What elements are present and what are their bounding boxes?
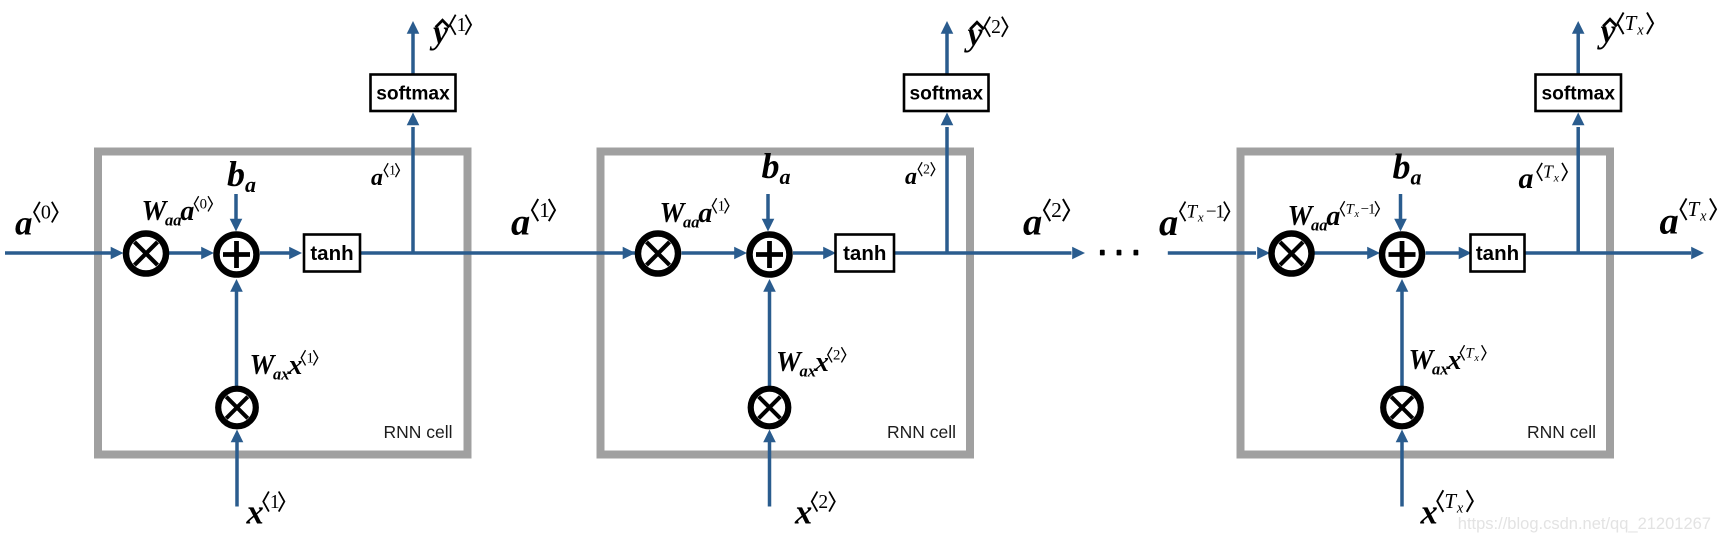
label W_aa a<0> cell1 — [142, 196, 213, 230]
svg-text:ax: ax — [273, 365, 290, 384]
wire cell1 plus to tanh — [260, 247, 302, 260]
svg-text:1: 1 — [1368, 202, 1375, 218]
svg-text:2: 2 — [1051, 198, 1062, 222]
arrow cell3 softmax output up — [1572, 21, 1585, 74]
svg-text:a: a — [15, 204, 33, 243]
svg-text:a: a — [511, 202, 530, 244]
svg-text:x: x — [1473, 353, 1479, 364]
svg-text:aa: aa — [165, 211, 182, 230]
svg-text:1: 1 — [457, 15, 467, 36]
svg-text:tanh: tanh — [1476, 242, 1519, 265]
svg-text:x: x — [246, 494, 264, 532]
arrowhead into cell3 multiply — [1257, 247, 1270, 260]
RNN cell 3 box — [1241, 152, 1611, 455]
svg-text:2: 2 — [833, 348, 840, 364]
svg-text:b: b — [1393, 147, 1411, 187]
multiply node cell3 (W_ax x) — [1383, 389, 1421, 427]
label a<2> small inside cell2 — [905, 162, 935, 191]
wire cell2 tanh output toward dots — [894, 251, 1072, 255]
label W_aa a<1> cell2 — [660, 198, 729, 232]
softmax box cell1 — [371, 75, 456, 112]
arrow cell2 Wax x into plus node — [763, 279, 776, 386]
wire cell1 tanh output to cell2 — [360, 251, 636, 255]
label x<1> — [246, 492, 285, 532]
svg-text:T: T — [1186, 201, 1198, 222]
label W_ax x<1> cell1 — [250, 350, 318, 384]
multiply node cell3 (W_aa a) — [1272, 234, 1312, 274]
svg-text:a: a — [1159, 202, 1178, 244]
svg-text:x: x — [794, 494, 812, 532]
wire cell2 plus to tanh — [793, 247, 836, 260]
svg-text:1: 1 — [307, 351, 314, 367]
svg-text:a: a — [1519, 162, 1534, 195]
svg-text:a: a — [905, 164, 917, 190]
wire cell1 multiply to plus — [167, 247, 215, 260]
wire cell2 multiply to plus — [682, 247, 748, 260]
svg-text:2: 2 — [923, 162, 930, 177]
svg-text:1: 1 — [539, 198, 550, 222]
RNN cell 1 box — [98, 152, 468, 455]
svg-text:x: x — [1456, 500, 1464, 516]
svg-text:a: a — [1023, 202, 1042, 244]
svg-text:T: T — [1688, 197, 1701, 221]
wire cell3 activation up from junction — [1576, 127, 1580, 254]
svg-text:x: x — [1354, 209, 1360, 220]
svg-text:0: 0 — [41, 202, 51, 224]
svg-text:https://blog.csdn.net/qq_21201: https://blog.csdn.net/qq_21201267 — [1458, 515, 1711, 533]
arrow cell1 softmax output up — [407, 21, 420, 74]
svg-text:a: a — [1326, 201, 1340, 232]
svg-text:tanh: tanh — [310, 242, 353, 265]
plus node cell1 — [217, 235, 257, 275]
svg-text:a: a — [371, 165, 383, 191]
label a<2> after cell2 — [1023, 198, 1069, 244]
svg-text:x: x — [1446, 345, 1461, 376]
svg-text:softmax: softmax — [1541, 83, 1615, 104]
multiply node cell2 (W_aa a) — [638, 234, 678, 274]
wire dots to cell3 — [1168, 251, 1256, 255]
arrowhead into cell1 softmax — [407, 113, 420, 126]
tanh box cell3 — [1471, 235, 1525, 272]
svg-text:a: a — [780, 164, 791, 189]
arrow x input into cell3 bottom multiply — [1396, 430, 1409, 507]
ellipsis dots between cell2 and cell3 — [1100, 250, 1138, 256]
svg-text:T: T — [1543, 162, 1554, 182]
svg-text:aa: aa — [683, 213, 700, 232]
svg-text:2: 2 — [991, 17, 1001, 38]
svg-text:ax: ax — [800, 362, 817, 381]
label y-hat<Tx> — [1597, 11, 1654, 51]
label y-hat<2> — [964, 17, 1008, 54]
wire cell3 tanh to output — [1525, 251, 1692, 255]
svg-text:ax: ax — [1432, 360, 1449, 379]
label a<Tx-1> before cell3 — [1159, 201, 1229, 244]
svg-text:aa: aa — [1311, 216, 1328, 235]
multiply node cell1 (W_aa a) — [126, 234, 166, 274]
svg-text:softmax: softmax — [909, 83, 983, 104]
svg-text:1: 1 — [270, 492, 280, 513]
wire cell1 activation up from junction — [411, 127, 415, 254]
arrowhead into cell3 softmax — [1572, 113, 1585, 126]
svg-text:a: a — [180, 196, 194, 227]
arrow b_a into cell1 plus node — [230, 194, 243, 232]
wire a0 input arrow into cell1 — [5, 247, 124, 260]
RNN cell 2 box — [601, 152, 971, 455]
svg-text:x: x — [1636, 23, 1644, 39]
svg-text:x: x — [287, 350, 302, 381]
tanh box cell1 — [304, 235, 360, 272]
label W_aa a<Tx-1> cell3 — [1288, 201, 1380, 235]
svg-text:a: a — [1660, 201, 1679, 243]
arrow b_a into cell2 plus node — [762, 194, 775, 232]
svg-text:softmax: softmax — [376, 83, 450, 104]
softmax box cell3 — [1536, 75, 1622, 112]
svg-text:a: a — [245, 172, 256, 197]
label x<2> — [794, 492, 835, 532]
svg-text:a: a — [698, 198, 712, 229]
label b_a cell3 — [1393, 147, 1422, 190]
svg-text:1: 1 — [718, 199, 725, 215]
svg-text:b: b — [762, 146, 780, 186]
label W_ax x<2> cell2 — [776, 347, 846, 381]
arrowhead before dots — [1072, 247, 1085, 260]
svg-text:x: x — [1699, 209, 1707, 225]
svg-text:T: T — [1625, 11, 1638, 35]
label W_ax x<Tx> cell3 — [1409, 345, 1486, 379]
svg-text:b: b — [227, 154, 245, 194]
svg-text:1: 1 — [1215, 201, 1225, 222]
label a<1> small inside cell1 — [371, 163, 399, 192]
wire cell2 activation up from junction — [945, 127, 949, 254]
arrowhead into cell2 softmax — [941, 113, 954, 126]
arrowhead a Tx output — [1691, 247, 1704, 260]
arrow cell1 Wax x into plus node — [230, 279, 243, 386]
arrow cell2 softmax output up — [941, 21, 954, 74]
tanh box cell2 — [836, 235, 895, 272]
label b_a cell2 — [762, 146, 791, 189]
wire cell3 plus to tanh — [1426, 247, 1472, 260]
svg-text:tanh: tanh — [843, 242, 886, 265]
svg-text:0: 0 — [200, 197, 207, 213]
label a<1> between cells — [511, 198, 555, 244]
svg-text:a: a — [1411, 165, 1422, 190]
label a<Tx> small inside cell3 — [1519, 162, 1568, 196]
softmax box cell2 — [904, 75, 989, 112]
arrow cell3 Wax x into plus node — [1396, 279, 1409, 386]
arrow x input into cell2 bottom multiply — [763, 430, 776, 507]
label b_a cell1 — [227, 154, 256, 197]
label x<Tx> — [1420, 489, 1473, 532]
svg-text:x: x — [1420, 494, 1438, 532]
svg-text:x: x — [1553, 170, 1560, 184]
arrowhead into cell2 multiply — [623, 247, 636, 260]
svg-text:x: x — [814, 347, 829, 378]
svg-text:x: x — [1197, 210, 1204, 225]
arrow b_a into cell3 plus node — [1394, 194, 1407, 232]
wire cell3 multiply to plus — [1315, 247, 1381, 260]
svg-text:RNN cell: RNN cell — [383, 422, 452, 442]
arrow x input into cell1 bottom multiply — [231, 430, 244, 507]
svg-text:T: T — [1444, 489, 1457, 513]
label a<Tx> output — [1660, 197, 1717, 243]
svg-text:RNN cell: RNN cell — [887, 422, 956, 442]
label y-hat<1> — [429, 15, 471, 52]
plus node cell2 — [750, 235, 790, 275]
label a<0> input — [15, 202, 58, 243]
multiply node cell1 (W_ax x) — [218, 389, 256, 427]
svg-text:1: 1 — [389, 163, 396, 178]
multiply node cell2 (W_ax x) — [751, 389, 789, 427]
svg-text:RNN cell: RNN cell — [1527, 422, 1596, 442]
plus node cell3 — [1382, 235, 1422, 275]
svg-text:2: 2 — [818, 492, 828, 513]
